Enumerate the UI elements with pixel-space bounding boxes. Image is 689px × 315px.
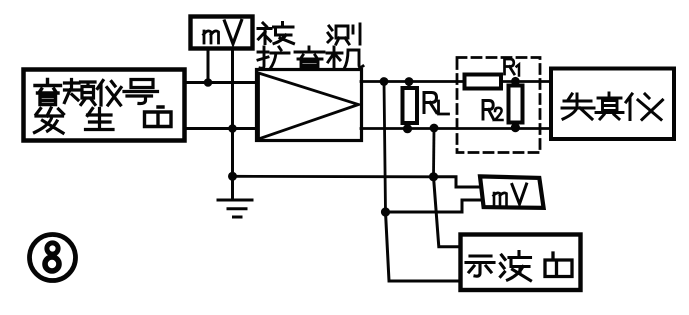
junction: oscilloscope net node — [381, 207, 390, 216]
box: oscilloscope 示波器 — [461, 235, 581, 291]
millivoltmeter box mV2 (slanted) — [480, 176, 544, 208]
wire: generator bottom output to amplifier — [185, 127, 257, 130]
junction: RL bottom node — [403, 124, 412, 133]
resistor R2 — [509, 86, 523, 123]
label 失 (distortion meter char1) — [562, 94, 594, 119]
label 音 (amp label line2 char2) — [295, 47, 324, 69]
label 音 (generator text line1 char1) — [35, 80, 61, 105]
junction: node B bottom wire — [430, 124, 439, 133]
wire: bottom wire down to ground node — [231, 129, 234, 177]
wire: RL top stub — [408, 82, 411, 89]
label R2 — [483, 101, 503, 121]
label 频 (generator text line1 char2) — [65, 80, 96, 105]
junction: R2 top node — [511, 77, 520, 86]
junction: common node — [429, 172, 438, 181]
label 器 (oscilloscope char3, degraded print) — [545, 253, 572, 277]
wire: amplifier bottom output rail to distortion meter — [361, 127, 551, 130]
junction: mV1 lead on bottom wire — [228, 124, 237, 133]
label mV (top meter) — [204, 21, 242, 44]
label R1 — [505, 59, 520, 76]
figure number circled 8 — [30, 235, 76, 281]
label 生 (generator text line2 char2) — [86, 109, 114, 130]
wire: R2 bottom stub — [514, 123, 517, 129]
label 真 (distortion meter char2) — [596, 93, 623, 119]
wire: node A vertical down to oscilloscope net — [384, 82, 386, 213]
amplifier under test box 被测扩音机 — [257, 70, 362, 141]
wire: common node to mV2 top lead — [434, 177, 481, 187]
label 发 (generator text line2 char1) — [35, 108, 64, 133]
label 机 (amp label line2 char3) — [327, 47, 363, 69]
junction: RL top node — [405, 77, 414, 86]
resistor RL — [403, 88, 418, 123]
resistor R1 — [465, 75, 502, 89]
wire: generator top output to amplifier — [185, 81, 257, 84]
wire: R1 right to distortion meter — [501, 80, 551, 83]
label 示 (oscilloscope char1) — [466, 256, 494, 276]
wire: amplifier top output to R1 — [361, 80, 464, 83]
label RL — [424, 93, 449, 115]
wire: mV1 left lead down to top wire — [207, 48, 210, 83]
ground — [218, 176, 252, 217]
label 被 (amp label line1 char1) — [258, 23, 294, 44]
label 扩 (amp label line2 char1) — [258, 47, 289, 69]
label 器 (generator text line2 char3, degraded print) — [145, 107, 172, 127]
label 测 (amp label line1 char2) — [328, 24, 360, 44]
dashed box: attenuator network — [457, 58, 540, 153]
wire: oscilloscope net to mV2 bottom lead — [386, 200, 482, 212]
wire: oscilloscope net down and right to scope lower input — [386, 212, 462, 281]
junction: ground node — [228, 172, 237, 181]
amplifier triangle symbol — [259, 73, 359, 139]
label 波 (oscilloscope char2) — [501, 252, 531, 281]
label 仪 (distortion meter char3) — [626, 94, 663, 120]
junction: R2 bottom node — [511, 123, 520, 132]
label 号 (generator text line1 char4) — [124, 80, 158, 104]
label 仪 (generator text line1 char3) — [98, 81, 122, 106]
millivoltmeter box mV1 (top) — [191, 17, 253, 49]
junction: node A top wire — [380, 77, 389, 86]
box: audio signal generator 音频信号发生器 — [24, 70, 185, 141]
wire: mV1 right lead down across to bottom wire — [231, 48, 234, 129]
wire: RL bottom stub — [407, 123, 410, 129]
wire: common node down to oscilloscope input — [434, 177, 462, 247]
box: distortion meter 失真仪 — [551, 69, 674, 140]
wire: R2 top stub — [514, 81, 517, 85]
junction: mV1 lead on top wire — [204, 78, 213, 87]
wire: ground rail to common node — [233, 175, 434, 178]
wire: node B vertical down to common node — [432, 128, 435, 177]
label mV (mV2) — [494, 184, 527, 205]
